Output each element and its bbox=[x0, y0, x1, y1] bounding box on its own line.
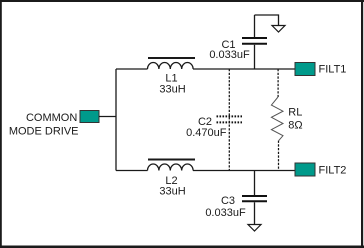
terminal FILT1 bbox=[295, 63, 315, 76]
inductor L1 bbox=[148, 58, 196, 96]
border frame bbox=[0, 0, 364, 2]
wire bottom right segment bbox=[193, 170, 295, 172]
svg-text:0.033uF: 0.033uF bbox=[209, 49, 250, 61]
svg-text:COMMON: COMMON bbox=[26, 112, 77, 124]
svg-text:33uH: 33uH bbox=[159, 186, 185, 198]
resistor RL (dashed equivalent) bbox=[271, 69, 302, 171]
svg-text:0.033uF: 0.033uF bbox=[205, 207, 246, 219]
svg-text:C3: C3 bbox=[221, 195, 235, 207]
wire bottom left segment bbox=[116, 170, 148, 172]
wire top left segment bbox=[116, 68, 148, 70]
svg-text:33uH: 33uH bbox=[159, 84, 185, 96]
wire to top ground bbox=[255, 15, 279, 26]
svg-text:8Ω: 8Ω bbox=[288, 119, 302, 131]
ground (top) bbox=[272, 26, 285, 33]
wire from COMMON terminal to left bus bbox=[99, 116, 116, 118]
ground (bottom) bbox=[248, 225, 261, 232]
capacitor C3 bbox=[205, 171, 267, 225]
inductor L2 bbox=[148, 160, 196, 198]
terminal FILT2 bbox=[295, 163, 315, 176]
capacitor C1 bbox=[209, 15, 267, 69]
svg-text:RL: RL bbox=[288, 107, 302, 119]
svg-text:MODE DRIVE: MODE DRIVE bbox=[9, 125, 79, 137]
wire left bus vertical bbox=[115, 69, 117, 171]
svg-text:FILT2: FILT2 bbox=[319, 165, 347, 177]
capacitor C2 (dashed equivalent) bbox=[186, 69, 242, 171]
svg-text:0.470uF: 0.470uF bbox=[186, 127, 227, 139]
svg-text:FILT1: FILT1 bbox=[319, 64, 347, 76]
terminal COMMON MODE DRIVE bbox=[80, 111, 99, 123]
wire top right segment bbox=[193, 68, 295, 70]
